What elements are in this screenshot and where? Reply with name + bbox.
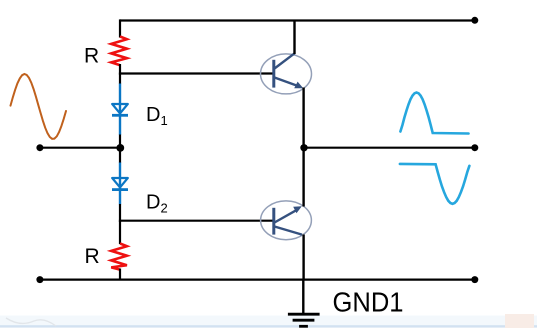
wire Q2 collector up to mid rail [302, 148, 304, 207]
wire node to D2 [119, 147, 121, 163]
svg-text:GND1: GND1 [333, 287, 404, 318]
resistor R2 [111, 244, 127, 270]
svg-text:D2: D2 [146, 192, 168, 216]
wire Q2 emitter down to bottom rail [302, 235, 304, 280]
wire stub top-left corner down to R1 [119, 19, 121, 37]
wire top rail [120, 19, 475, 21]
input sine waveform [11, 74, 67, 139]
wire D2 down to corner [119, 204, 121, 222]
wire input horizontal [40, 147, 121, 149]
wire Q1 collector up [293, 21, 295, 54]
diode D2 [112, 163, 128, 205]
output waveform positive half-cycle [400, 93, 468, 134]
node top-right terminal [471, 17, 478, 24]
svg-text:R: R [84, 45, 99, 68]
ground GND1 symbol [288, 314, 320, 326]
wire corner down to R2 [119, 221, 121, 244]
output waveform negative half-cycle [400, 164, 470, 204]
node bottom-left terminal [36, 276, 43, 283]
node mid-right terminal [471, 144, 478, 151]
wire Q1 emitter down to mid rail [302, 88, 304, 149]
node input terminal [36, 144, 43, 151]
node junction D1/D2/input [116, 144, 124, 152]
node bottom-right terminal [471, 276, 478, 283]
wire bottom rail [40, 279, 475, 281]
decorative warm patch bottom-right [505, 314, 534, 328]
wire R2 to bottom rail [119, 269, 121, 281]
wire mid rail [304, 147, 475, 149]
transistor Q1 [261, 53, 312, 94]
wire D1 to input node [119, 135, 121, 150]
svg-text:D1: D1 [146, 104, 168, 128]
wire Q1 base horizontal [119, 72, 275, 74]
node mid junction [300, 144, 307, 151]
bottom slide edge band [0, 316, 537, 328]
diode D1 [112, 84, 128, 135]
wire ground stem [302, 280, 304, 314]
wire stub R1 to node [119, 64, 121, 75]
transistor Q2 [261, 201, 312, 240]
wire Q2 base horizontal [119, 220, 275, 222]
decorative faint scribble bottom-left [6, 318, 56, 326]
wire down to D1 [119, 74, 121, 85]
svg-text:R: R [85, 245, 100, 268]
resistor R1 [111, 37, 127, 66]
